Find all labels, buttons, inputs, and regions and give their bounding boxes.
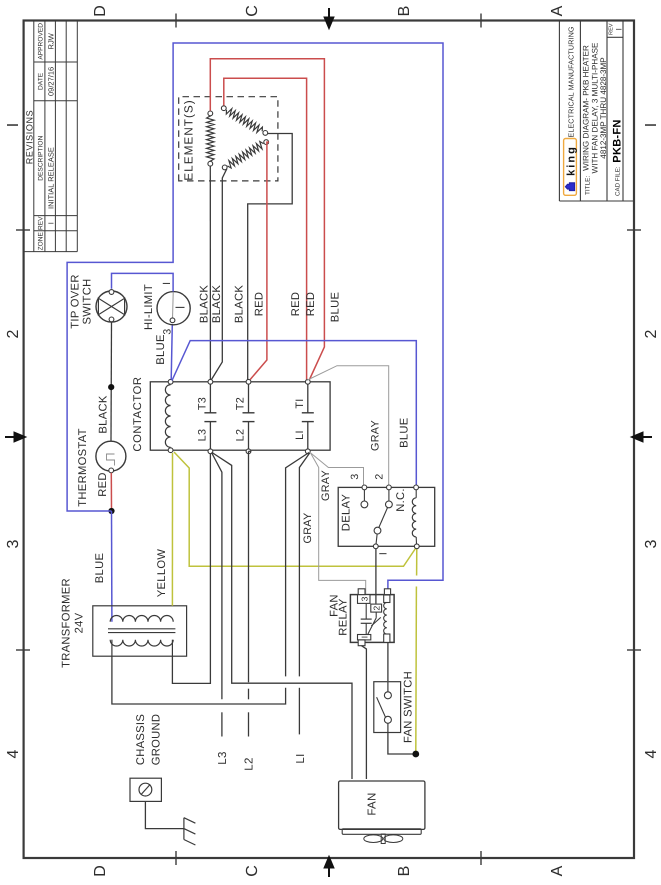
title block (559, 21, 634, 202)
chassis ground terminal (130, 714, 163, 802)
svg-text:BLUE: BLUE (94, 553, 106, 583)
svg-text:3: 3 (643, 539, 660, 548)
svg-text:APPROVED: APPROVED (38, 23, 45, 60)
svg-text:TITLE:: TITLE: (585, 176, 592, 195)
svg-text:THERMOSTAT: THERMOSTAT (77, 428, 89, 506)
svg-text:I: I (360, 636, 370, 638)
svg-text:SWITCH: SWITCH (82, 279, 94, 325)
wire red: E2 to contactor T1 (RED) (224, 78, 307, 379)
svg-text:RELAY: RELAY (338, 598, 350, 636)
contactor contact T3/L3 (197, 379, 217, 453)
wire red: element vertex to contactor T2 (RED) (250, 142, 269, 379)
contactor contact T2/L2 (235, 379, 255, 453)
wire black: L1 field lead (295, 453, 310, 764)
svg-text:I: I (378, 552, 390, 555)
wire yellow: contactor coil to delay coil and fan switch junction (174, 452, 417, 754)
delay relay K2 (338, 474, 435, 556)
svg-text:LI: LI (294, 430, 306, 440)
svg-text:BLUE: BLUE (155, 334, 167, 364)
svg-text:A: A (549, 865, 566, 876)
svg-text:BLACK: BLACK (198, 285, 210, 323)
svg-text:L3: L3 (217, 751, 229, 764)
wire black: contactor L1 to transformer primary a (112, 453, 309, 705)
svg-text:GRAY: GRAY (370, 420, 382, 451)
svg-text:3: 3 (349, 474, 361, 480)
wire black: L3 to fan motor (212, 453, 352, 780)
svg-text:C: C (244, 865, 261, 877)
wire blue: contactor coil to delay NC contact (BLUE) (172, 341, 416, 486)
svg-text:D: D (92, 5, 109, 17)
wire black: E3 to contactor T3 (BLACK) (211, 169, 227, 380)
svg-text:BLUE: BLUE (399, 417, 411, 447)
svg-text:king: king (566, 145, 578, 176)
svg-text:2: 2 (5, 329, 22, 338)
contactor K1 (132, 376, 330, 452)
wire red: E1 to contactor T1 (RED) (210, 59, 324, 380)
wire black: tip-over to thermostat (BLACK) (97, 322, 111, 441)
svg-text:RED: RED (305, 292, 317, 317)
svg-text:2: 2 (372, 605, 382, 610)
svg-text:I: I (615, 28, 624, 30)
svg-text:I: I (5, 123, 22, 127)
svg-text:CHASSIS: CHASSIS (135, 714, 147, 765)
wire black: contactor L2 field lead (244, 451, 256, 770)
svg-text:T2: T2 (235, 397, 247, 410)
svg-text:2: 2 (643, 329, 660, 338)
wire blue: outer control loop to fan relay coil (67, 43, 443, 592)
svg-text:CAD FILE:: CAD FILE: (615, 166, 622, 196)
svg-text:I: I (47, 222, 56, 224)
wire gray: T1 to delay terminal 2 (GRAY) (307, 366, 389, 486)
junction dot: control splice (108, 508, 114, 514)
wire gray: L1 to fan relay terminal 3 (GRAY) (302, 452, 366, 595)
svg-text:3: 3 (5, 539, 22, 548)
fan relay K3 (329, 589, 395, 646)
wire black: fan relay 1 to fan motor (362, 646, 367, 779)
svg-text:GRAY: GRAY (302, 513, 314, 544)
svg-text:DATE: DATE (38, 72, 45, 90)
svg-text:ELEMENT(S): ELEMENT(S) (182, 99, 196, 180)
svg-text:RED: RED (253, 292, 265, 317)
svg-text:TIP OVER: TIP OVER (70, 274, 82, 328)
resistor element E1 (207, 111, 214, 166)
svg-text:L3: L3 (197, 429, 209, 442)
svg-text:BLACK: BLACK (233, 285, 245, 323)
wire gray: L1 to delay terminal 3 (GRAY) (310, 452, 364, 501)
svg-text:ELECTRICAL MANUFACTURING: ELECTRICAL MANUFACTURING (567, 26, 576, 137)
svg-text:REV: REV (38, 216, 45, 230)
svg-text:B: B (396, 6, 413, 17)
svg-text:D: D (92, 865, 109, 877)
resistor element E3 (222, 140, 268, 170)
wire yellow: contactor coil to transformer primary (YELLOW) (156, 453, 173, 606)
svg-text:I: I (643, 123, 660, 127)
svg-text:4812-3MP THRU 4828-3MP: 4812-3MP THRU 4828-3MP (599, 57, 608, 158)
svg-text:HI-LIMIT: HI-LIMIT (143, 284, 155, 330)
ground symbol (145, 801, 195, 845)
revisions table (24, 21, 78, 252)
wire black: fan switch to yellow junction (388, 733, 413, 755)
svg-text:LI: LI (295, 753, 307, 763)
svg-text:PKB-FN: PKB-FN (611, 119, 623, 162)
svg-text:RED: RED (290, 292, 302, 317)
transformer 24V (61, 578, 187, 668)
svg-text:3: 3 (360, 596, 370, 601)
thermostat S1 (77, 428, 126, 506)
wire red: thermostat to splice (RED) (97, 472, 112, 508)
junction dot: yellow / fan switch (412, 751, 419, 758)
svg-text:FAN SWITCH: FAN SWITCH (403, 671, 415, 743)
svg-text:T3: T3 (197, 397, 209, 410)
wire black: fan relay coil to fan switch (387, 642, 389, 681)
svg-text:CONTACTOR: CONTACTOR (132, 376, 144, 451)
resistor element E2 (221, 106, 267, 136)
svg-text:L2: L2 (244, 757, 256, 770)
svg-text:DELAY: DELAY (341, 494, 353, 532)
contactor contact T1/L1 (294, 379, 314, 453)
svg-text:09/27/16: 09/27/16 (47, 67, 56, 96)
wire blue: splice to transformer secondary (BLUE) (94, 511, 112, 622)
svg-text:2: 2 (374, 474, 386, 480)
wire blue: hi-limit 3 to contactor coil (BLUE) (155, 324, 172, 380)
svg-text:RJW: RJW (47, 32, 56, 49)
svg-text:C: C (244, 5, 261, 17)
svg-text:BLACK: BLACK (97, 395, 109, 433)
svg-text:ZONE: ZONE (38, 231, 45, 250)
svg-text:TRANSFORMER: TRANSFORMER (61, 578, 73, 668)
wire black: element vertex to contactor T2 (BLACK) (233, 134, 292, 380)
wire black: delay 1 to fan relay 2 (375, 549, 377, 604)
svg-text:3: 3 (162, 328, 174, 334)
svg-text:RED: RED (97, 472, 109, 497)
hi-limit switch S2 (143, 282, 190, 335)
wire blue: hi-limit 1 to tip-over switch (BLUE) (112, 273, 174, 291)
svg-text:A: A (549, 5, 566, 16)
svg-text:BLUE: BLUE (330, 292, 342, 322)
svg-text:I: I (161, 282, 173, 285)
svg-text:N.C.: N.C. (395, 488, 407, 512)
svg-text:B: B (396, 866, 413, 877)
svg-text:24V: 24V (74, 612, 86, 633)
svg-text:DESCRIPTION: DESCRIPTION (38, 135, 45, 180)
svg-text:GROUND: GROUND (151, 714, 163, 766)
king logo (564, 139, 578, 196)
svg-text:L2: L2 (235, 429, 247, 442)
fan motor M1 (339, 781, 425, 844)
tip-over switch S3 (70, 274, 128, 328)
heater elements dashed box ELEMENT(S) (179, 97, 278, 181)
wire black: L3 field lead (212, 453, 230, 765)
wire black: E1 to contactor T3 (BLACK) (198, 166, 210, 379)
wire black: contactor L3 to transformer primary b (172, 454, 210, 684)
svg-text:GRAY: GRAY (320, 470, 332, 501)
fan switch S4 (374, 671, 415, 743)
svg-text:WIRING DIAGRAM- PKB HEATER: WIRING DIAGRAM- PKB HEATER (581, 45, 590, 171)
splice dot: black/blue (108, 384, 114, 390)
svg-text:4: 4 (5, 749, 22, 758)
svg-text:TI: TI (294, 398, 306, 408)
svg-text:FAN: FAN (367, 792, 379, 815)
svg-text:4: 4 (643, 749, 660, 758)
svg-text:REVISIONS: REVISIONS (24, 110, 34, 164)
svg-text:INITIAL RELEASE: INITIAL RELEASE (47, 147, 56, 209)
svg-text:BLACK: BLACK (211, 285, 223, 323)
svg-text:YELLOW: YELLOW (156, 549, 168, 598)
